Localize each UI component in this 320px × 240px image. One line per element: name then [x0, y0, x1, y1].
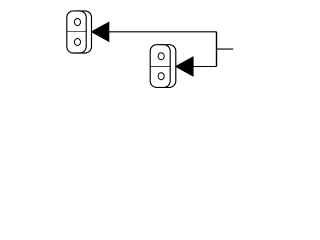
- node N2 pin ellipse top: [158, 53, 164, 60]
- wire A from arrowhead A1 going right: [109, 31, 217, 33]
- node N1 back plate: [71, 11, 91, 53]
- arrowhead A2 into node N2: [176, 57, 193, 76]
- node N1 divider: [67, 31, 86, 33]
- node N1 pin ellipse bottom: [74, 39, 80, 46]
- node N2 front plate: [150, 45, 170, 88]
- arrowhead A1 into node N1: [92, 22, 109, 41]
- node N2 back plate: [156, 45, 176, 88]
- wire vertical segment: [216, 32, 218, 67]
- node N2 pin ellipse bottom: [158, 73, 164, 80]
- node N1 front plate: [67, 11, 86, 53]
- wire B going left to arrowhead A2: [193, 66, 216, 68]
- node N1 pin ellipse top: [74, 19, 80, 26]
- wire stub to the right: [217, 48, 234, 50]
- node N2 divider: [150, 65, 170, 67]
